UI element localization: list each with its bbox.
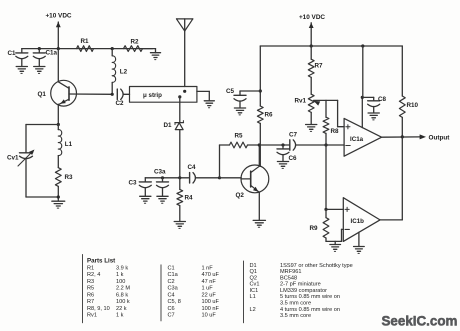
svg-text:Cv1: Cv1 — [7, 155, 19, 162]
svg-text:C7: C7 — [168, 313, 175, 319]
svg-text:R6: R6 — [87, 292, 94, 298]
svg-text:R8, 9, 10: R8, 9, 10 — [87, 306, 110, 312]
svg-text:R2, 4: R2, 4 — [87, 272, 100, 278]
svg-text:Parts List: Parts List — [87, 258, 115, 265]
svg-text:R1: R1 — [87, 265, 94, 271]
svg-text:1 k: 1 k — [116, 272, 124, 278]
svg-text:R6: R6 — [265, 111, 274, 118]
svg-text:C8: C8 — [378, 96, 387, 103]
svg-text:SeekIC.com: SeekIC.com — [382, 313, 458, 328]
svg-text:Q2: Q2 — [236, 192, 245, 199]
svg-text:+10 VDC: +10 VDC — [45, 13, 71, 20]
svg-text:Q1: Q1 — [38, 91, 47, 98]
svg-text:C1: C1 — [168, 265, 175, 271]
svg-text:470 uF: 470 uF — [202, 272, 220, 278]
svg-text:2-7 pF miniature: 2-7 pF miniature — [280, 282, 321, 288]
svg-text:3.9 k: 3.9 k — [116, 265, 128, 271]
svg-text:L2: L2 — [120, 69, 128, 76]
svg-text:R7: R7 — [87, 299, 94, 305]
svg-text:C7: C7 — [289, 131, 298, 138]
svg-text:R2: R2 — [131, 39, 140, 46]
svg-text:R4: R4 — [185, 194, 194, 201]
svg-text:R1: R1 — [81, 38, 90, 45]
svg-text:IC1: IC1 — [250, 288, 259, 294]
svg-text:+10 VDC: +10 VDC — [299, 14, 325, 21]
svg-text:MRF961: MRF961 — [280, 269, 301, 275]
svg-text:5 turns 0.85 mm wire on: 5 turns 0.85 mm wire on — [280, 294, 340, 300]
svg-text:6.8 k: 6.8 k — [116, 292, 128, 298]
svg-text:22 uF: 22 uF — [202, 292, 217, 298]
svg-text:C4: C4 — [168, 292, 175, 298]
svg-text:1 nF: 1 nF — [202, 265, 214, 271]
svg-text:R8: R8 — [331, 128, 340, 135]
svg-text:C3a: C3a — [154, 168, 166, 175]
svg-text:Q2: Q2 — [250, 275, 257, 281]
svg-text:1 k: 1 k — [116, 313, 124, 319]
svg-text:C1a: C1a — [168, 272, 179, 278]
svg-text:L1: L1 — [65, 141, 73, 148]
svg-text:C3a: C3a — [168, 286, 179, 292]
svg-text:C1a: C1a — [46, 50, 58, 57]
svg-text:100: 100 — [116, 279, 125, 285]
svg-text:1SS97 or other Schottky type: 1SS97 or other Schottky type — [280, 263, 353, 269]
svg-text:Output: Output — [429, 135, 451, 142]
svg-text:D1: D1 — [164, 122, 173, 129]
svg-text:IC1b: IC1b — [351, 218, 365, 225]
svg-text:C5, 8: C5, 8 — [168, 299, 181, 305]
svg-text:R3: R3 — [65, 174, 74, 181]
svg-text:L2: L2 — [250, 307, 256, 313]
svg-text:47 nF: 47 nF — [202, 279, 217, 285]
svg-text:C4: C4 — [188, 164, 197, 171]
svg-text:L1: L1 — [250, 294, 256, 300]
svg-text:100 nF: 100 nF — [202, 306, 220, 312]
svg-text:Rv1: Rv1 — [87, 313, 97, 319]
svg-text:LM339 comparator: LM339 comparator — [280, 288, 327, 294]
svg-text:R5: R5 — [87, 286, 94, 292]
svg-text:C6: C6 — [168, 306, 175, 312]
svg-text:Cv1: Cv1 — [250, 282, 260, 288]
svg-text:100 k: 100 k — [116, 299, 130, 305]
svg-text:2.2 M: 2.2 M — [116, 286, 130, 292]
svg-text:3.5 mm core: 3.5 mm core — [280, 313, 311, 319]
svg-text:22 k: 22 k — [116, 306, 127, 312]
svg-text:C2: C2 — [116, 100, 125, 107]
svg-text:C1: C1 — [8, 50, 17, 57]
svg-text:R5: R5 — [235, 132, 244, 139]
svg-text:D1: D1 — [250, 263, 257, 269]
svg-text:C2: C2 — [168, 279, 175, 285]
svg-text:R10: R10 — [407, 102, 419, 109]
svg-text:R9: R9 — [310, 225, 319, 232]
svg-text:BC548: BC548 — [280, 275, 297, 281]
svg-text:R7: R7 — [315, 63, 324, 70]
svg-text:Q1: Q1 — [250, 269, 257, 275]
svg-text:4 turns 0.85 mm wire on: 4 turns 0.85 mm wire on — [280, 307, 340, 313]
svg-text:μ strip: μ strip — [143, 92, 162, 99]
svg-text:IC1a: IC1a — [350, 136, 364, 143]
svg-text:C3: C3 — [129, 179, 138, 186]
svg-text:C5: C5 — [226, 88, 235, 95]
svg-text:10 uF: 10 uF — [202, 313, 217, 319]
svg-text:1 uF: 1 uF — [202, 286, 214, 292]
svg-text:3.5 mm core: 3.5 mm core — [280, 300, 311, 306]
svg-text:R3: R3 — [87, 279, 94, 285]
svg-text:C6: C6 — [289, 155, 298, 162]
svg-text:100 uF: 100 uF — [202, 299, 220, 305]
svg-text:Rv1: Rv1 — [295, 98, 307, 105]
